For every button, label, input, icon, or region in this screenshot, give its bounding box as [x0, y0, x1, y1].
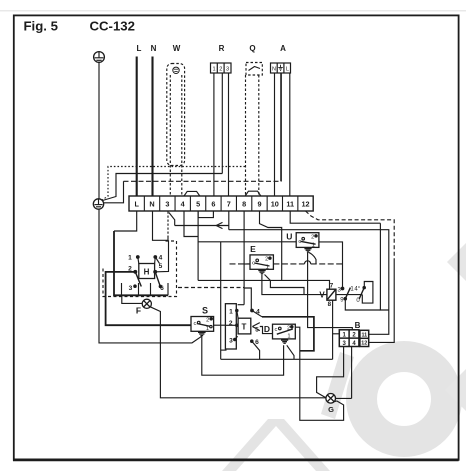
E contact c: [256, 259, 259, 262]
wire S earth down to earth link: [202, 336, 284, 375]
wire terminal 11 drop: [290, 211, 380, 223]
wire terminal 7 stub: [228, 211, 230, 230]
svg-text:6: 6: [160, 285, 164, 292]
component T connector box: [225, 304, 236, 349]
svg-text:5: 5: [255, 327, 259, 334]
S contact c: [197, 321, 200, 324]
H pocket wall d: [167, 283, 169, 295]
wire Q lead to terminal 9 dashed: [258, 75, 260, 196]
wire S/T riser: [220, 242, 222, 359]
svg-text:1: 1: [212, 66, 215, 72]
svg-text:L: L: [137, 44, 142, 53]
svg-text:4: 4: [256, 308, 260, 315]
svg-text:6: 6: [255, 339, 259, 346]
E contact 2: [269, 257, 271, 259]
svg-text:1: 1: [287, 334, 290, 340]
component B connector side block: [360, 330, 369, 346]
wire terminal 3 stub solid end: [167, 237, 169, 241]
R pin labels: [212, 66, 229, 72]
wire terminal 12 dashed drop: [306, 211, 395, 262]
T contact 2: [225, 324, 238, 326]
H pocket wall b: [138, 283, 140, 295]
wire Q lead to terminal 8 dashed: [245, 75, 247, 196]
T coil box: [238, 318, 251, 334]
svg-text:3: 3: [226, 66, 229, 72]
V contact 3 dot: [341, 287, 344, 290]
bus A-L down right side: [380, 223, 388, 310]
svg-text:D: D: [264, 324, 270, 334]
wire earth dotted branch to W/Q: [102, 167, 246, 201]
svg-text:G: G: [328, 405, 334, 414]
svg-text:T: T: [242, 323, 247, 332]
svg-text:Fig. 5: Fig. 5: [24, 19, 58, 34]
svg-text:W: W: [173, 44, 181, 53]
wire 12 bus to B12: [369, 262, 395, 342]
watermark ring: [362, 357, 447, 442]
component E box: [250, 255, 273, 269]
H enclosure left and bottom: [114, 231, 168, 295]
T pin labels: [229, 308, 260, 346]
svg-text:2: 2: [219, 66, 222, 72]
jumper link 4-5 above strip: [184, 191, 200, 196]
bus T4 to D2 loop: [262, 317, 314, 351]
jumper link 5-6 below strip: [198, 211, 213, 218]
svg-text:2: 2: [287, 325, 290, 331]
E switch arm: [254, 263, 269, 266]
T contact 5 plug arrow: [252, 323, 272, 334]
lamp F: [142, 299, 151, 308]
wire earth dashed branch to A earth: [104, 181, 282, 203]
watermark diamond right upper: [447, 241, 466, 283]
bus lower to V pin8: [221, 358, 333, 360]
jumper link 8-9 above strip: [245, 191, 261, 196]
H contact 1: [137, 256, 140, 264]
V pin labels: [328, 283, 334, 308]
svg-text:2: 2: [206, 317, 209, 323]
component V box: [327, 289, 336, 300]
wire H2 feed thick: [106, 272, 191, 325]
wire N supply: [151, 57, 153, 197]
svg-text:4°: 4°: [354, 287, 360, 293]
svg-text:U: U: [286, 232, 292, 242]
wire L supply: [136, 57, 138, 197]
H pocket wall c: [150, 283, 152, 295]
svg-text:L: L: [286, 66, 289, 72]
S contact 1: [210, 325, 212, 327]
wire earth vertical drop: [98, 63, 100, 200]
wire 8 branch to T1: [238, 304, 245, 306]
U pin labels: [298, 234, 315, 248]
D contact c: [279, 327, 282, 330]
A pin labels: [272, 66, 289, 72]
T contact 3: [234, 336, 238, 340]
D contact 2: [291, 326, 293, 328]
svg-text:N: N: [149, 199, 154, 208]
bus to V pin7: [198, 280, 329, 289]
svg-text:2: 2: [229, 320, 233, 327]
T contact 4 arm: [251, 309, 262, 317]
terminal strip: [129, 196, 313, 211]
wire link 4-5-7 with plug arrow: [175, 222, 229, 228]
B pin labels: [343, 333, 357, 347]
wire A N to terminal 10: [274, 73, 276, 196]
D switch arm: [277, 329, 293, 334]
svg-text:10: 10: [271, 199, 279, 208]
wire terminal 3 diagonal to link 4-7: [169, 213, 175, 226]
wire earth branch to R2: [103, 174, 223, 201]
bus U-c feed: [198, 241, 296, 243]
svg-text:S: S: [202, 306, 208, 316]
wire earth bus to S: [99, 209, 202, 343]
svg-text:F: F: [136, 306, 141, 316]
wire R1 to terminal 6: [213, 73, 215, 196]
svg-text:E: E: [250, 244, 256, 254]
svg-text:H: H: [144, 268, 150, 277]
V contact 9 arm: [344, 288, 350, 300]
wire 8 branch to T4: [244, 288, 251, 310]
svg-text:9: 9: [257, 199, 261, 208]
wire G right: [336, 397, 352, 399]
earth electrode symbol top: [94, 52, 105, 63]
V row labels: [338, 287, 361, 304]
wire W lead to terminal 3 dashed: [169, 75, 171, 196]
wire N to H contact 5: [157, 240, 169, 271]
wire U1 to V contact 3: [319, 242, 343, 287]
svg-text:7: 7: [330, 283, 334, 290]
E pin labels: [252, 257, 269, 271]
appliance W dashed outline: [167, 64, 185, 166]
T contact 6 arm: [251, 340, 260, 359]
svg-text:V: V: [319, 291, 325, 300]
svg-text:1: 1: [312, 243, 315, 249]
svg-text:1: 1: [206, 326, 209, 332]
svg-text:c: c: [193, 321, 196, 327]
wire D2 to G loop: [295, 327, 343, 420]
watermark band: [222, 419, 330, 471]
svg-text:8: 8: [328, 301, 332, 308]
dash-dot link right of E: [273, 263, 342, 265]
dash-dot hop over U earth wire: [305, 261, 311, 264]
wire terminal 5 drop: [197, 211, 199, 280]
wire A L to terminal 11: [289, 73, 291, 196]
svg-text:1: 1: [128, 254, 132, 261]
svg-text:5: 5: [196, 199, 200, 208]
H coil box: [139, 264, 155, 279]
wire U earth curve branch: [309, 252, 316, 264]
wire R2 vertical: [221, 73, 223, 174]
W motor symbol: [173, 67, 179, 73]
H contact 3: [134, 285, 136, 287]
watermark diamond right lower: [445, 368, 466, 412]
svg-text:2: 2: [311, 234, 314, 240]
earth electrode symbol lower: [93, 199, 103, 209]
lamp G: [326, 394, 336, 404]
svg-text:3: 3: [229, 338, 233, 345]
svg-text:L: L: [134, 199, 139, 208]
U switch arm: [300, 241, 315, 244]
wire terminal 8 drop: [243, 211, 245, 305]
svg-text:c: c: [252, 261, 255, 267]
svg-text:8: 8: [242, 199, 246, 208]
svg-text:CC-132: CC-132: [90, 19, 135, 34]
svg-text:2: 2: [265, 257, 268, 263]
A earth pin glyph: [278, 65, 283, 71]
wire N drop: [153, 211, 169, 240]
E earth bars: [258, 270, 265, 273]
component A terminal box: [271, 63, 291, 73]
svg-text:N: N: [272, 66, 276, 72]
wire terminal 3 stub dashed: [167, 212, 169, 238]
component S box: [191, 317, 214, 332]
wire rung V row lower: [345, 299, 380, 310]
Q sensor mark: [249, 67, 261, 71]
component Q dashed box: [246, 63, 262, 76]
wire terminal 4 stub: [184, 211, 198, 237]
wire B3 to G: [317, 347, 344, 398]
wire L to H enclosure: [114, 211, 137, 231]
wire A earth stub: [280, 73, 282, 181]
wire B1 feed: [333, 333, 340, 335]
component B connector main block: [339, 330, 359, 347]
svg-text:Q: Q: [249, 44, 255, 53]
D earth bars: [281, 340, 288, 343]
svg-text:B: B: [355, 321, 361, 330]
svg-text:c: c: [298, 239, 301, 245]
wire A earth vertical: [280, 73, 282, 181]
svg-text:11: 11: [361, 333, 367, 339]
svg-text:4: 4: [159, 254, 163, 261]
S contact 2: [210, 318, 212, 320]
wire F left riser: [122, 295, 142, 303]
wire V pin8 drop: [332, 300, 334, 359]
wire D earth diagonal to lower bus: [287, 345, 294, 359]
wire G lower diagonal: [334, 400, 337, 403]
H contact 2 arm: [134, 270, 141, 286]
wire T3 stub: [221, 349, 227, 351]
svg-text:7: 7: [227, 199, 231, 208]
svg-text:12: 12: [301, 199, 309, 208]
svg-text:A: A: [280, 44, 286, 53]
S switch arm: [197, 324, 210, 327]
wire U earth to B2: [308, 252, 353, 329]
svg-text:12: 12: [361, 341, 367, 347]
component U box: [296, 233, 319, 248]
T contact 1: [236, 309, 239, 318]
H dashed enclosure: [103, 241, 177, 297]
wire S out to T: [214, 324, 226, 326]
svg-text:R: R: [219, 44, 225, 53]
U contact c: [302, 237, 305, 240]
component R terminal box: [211, 63, 232, 73]
H pin labels: [128, 254, 164, 292]
dash-dot link left of E: [230, 263, 251, 265]
wire R3 to terminal 7: [228, 73, 230, 196]
wire 8 branch to E c: [244, 263, 250, 265]
dashed link H to T4: [178, 287, 244, 289]
svg-text:1: 1: [229, 309, 233, 316]
svg-text:2: 2: [128, 266, 132, 273]
bus terminal 7 to connector B11: [229, 230, 389, 335]
component D box: [273, 324, 296, 339]
svg-text:c: c: [275, 327, 278, 333]
svg-text:3: 3: [129, 285, 133, 292]
wire terminal 9 drop: [260, 211, 282, 280]
svg-text:11: 11: [286, 199, 294, 208]
D pin labels: [275, 325, 291, 339]
S earth bars: [198, 332, 206, 335]
V contact 0-2 arm: [359, 286, 365, 299]
watermark slash: [321, 352, 354, 419]
svg-text:1: 1: [266, 265, 269, 271]
svg-text:5: 5: [159, 263, 163, 270]
S pin labels: [193, 317, 209, 332]
H pocket wall a: [121, 283, 123, 295]
H contact 6: [159, 285, 161, 287]
wire B4 drop: [351, 347, 353, 399]
svg-text:6: 6: [211, 199, 215, 208]
U contact 2: [315, 235, 317, 237]
H contact 5 arm: [154, 270, 160, 286]
wire E earth to V row: [262, 275, 362, 295]
svg-text:3: 3: [165, 199, 169, 208]
H contact 4: [154, 256, 159, 264]
wire rung V contact hook: [362, 282, 373, 304]
wire F to G run: [150, 307, 326, 398]
wire W lead to terminal 4 dashed: [181, 75, 183, 196]
wire E earth diagonal branch: [265, 275, 305, 295]
U earth bars: [304, 249, 311, 252]
svg-text:N: N: [151, 44, 157, 53]
terminal labels: [134, 199, 309, 208]
